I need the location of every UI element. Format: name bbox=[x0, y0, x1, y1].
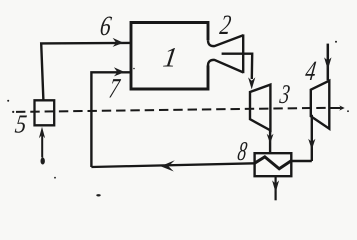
svg-text:3: 3 bbox=[277, 80, 291, 110]
svg-text:2: 2 bbox=[218, 10, 233, 40]
svg-text:6: 6 bbox=[98, 11, 113, 41]
svg-text:8: 8 bbox=[236, 136, 249, 165]
svg-text:4: 4 bbox=[303, 56, 317, 87]
svg-text:7: 7 bbox=[107, 73, 122, 104]
svg-text:1: 1 bbox=[161, 43, 179, 74]
svg-text:5: 5 bbox=[13, 110, 28, 139]
